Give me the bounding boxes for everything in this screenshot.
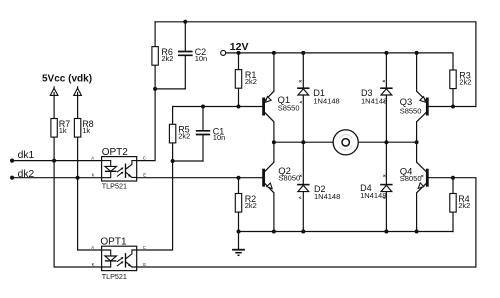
- svg-text:2k2: 2k2: [178, 132, 190, 141]
- svg-text:S8050: S8050: [400, 174, 422, 183]
- svg-text:A: A: [91, 156, 94, 161]
- node R3 bottom / Q3 base: [451, 105, 455, 109]
- diode D1: [297, 80, 340, 106]
- node D1 top on 12V rail: [301, 51, 305, 55]
- svg-text:A: A: [91, 245, 94, 250]
- terminal 12V: [221, 41, 249, 55]
- node D1/D2 motor row: [301, 140, 305, 144]
- wire R4 column leads: [452, 178, 454, 232]
- capacitor C1: [196, 126, 226, 142]
- terminal dk2: [10, 169, 34, 180]
- resistor R8: [74, 119, 93, 138]
- wire R7 column down to OPT1 cathode: [54, 94, 102, 268]
- diode D2: [297, 175, 340, 201]
- svg-text:2k2: 2k2: [161, 54, 173, 63]
- wire top rail (R6/C2 top to right-side drop to Q3 base): [155, 22, 476, 107]
- svg-text:K: K: [92, 262, 95, 267]
- motor M: [333, 130, 358, 155]
- svg-text:10n: 10n: [213, 133, 226, 142]
- svg-text:C: C: [143, 245, 146, 250]
- node R5 bottom: [171, 159, 175, 163]
- node D3/D4 motor row: [384, 140, 388, 144]
- power symbol 5Vcc arrow (R7): [50, 86, 58, 95]
- svg-text:1N4148: 1N4148: [360, 191, 386, 200]
- node R8 / dk2: [76, 176, 80, 180]
- node Q1 top on 12V rail: [272, 51, 276, 55]
- wire OPT2 emitter row to Q2 base (through R2 top): [137, 177, 263, 179]
- wire Q1 base row (R5/C1 top to Q1 base): [173, 106, 263, 108]
- node R2 bottom / ground: [237, 230, 241, 234]
- capacitor C2: [178, 47, 207, 63]
- svg-text:OPT2: OPT2: [102, 147, 129, 158]
- node D3 top on 12V rail: [384, 51, 388, 55]
- transistor Q1: [262, 95, 299, 116]
- svg-text:2k2: 2k2: [459, 77, 471, 86]
- svg-text:5Vcc (vdk): 5Vcc (vdk): [42, 73, 92, 84]
- transistor Q3: [400, 97, 429, 116]
- wire OPT2 collector stub up to R6/C2 bottom node: [137, 89, 155, 161]
- wire R6/C2 bottom joining wire: [155, 88, 185, 90]
- node Q3 top on 12V rail: [415, 51, 419, 55]
- diode D4: [360, 175, 393, 200]
- wire motor row right segment: [358, 141, 416, 143]
- wire R2 column and ground stem: [238, 178, 240, 249]
- svg-text:1k: 1k: [82, 126, 90, 135]
- optocoupler OPT1: [91, 237, 146, 281]
- svg-text:1k: 1k: [59, 126, 67, 135]
- svg-text:E: E: [143, 173, 146, 178]
- svg-text:S8050: S8050: [279, 174, 301, 183]
- wire C2 column leads: [184, 22, 186, 89]
- node R1 top on 12V rail: [237, 51, 241, 55]
- resistor R1: [235, 70, 257, 89]
- power symbol 5Vcc arrow (R8): [74, 86, 82, 95]
- resistor R3: [450, 70, 472, 89]
- node R4 top / Q4 base: [451, 176, 455, 180]
- node R7 / dk1: [52, 159, 56, 163]
- resistor R5: [169, 124, 190, 143]
- wire Q4 base row to right side down to OPT1 emitter row: [137, 178, 476, 267]
- transistor Q4: [400, 166, 429, 188]
- svg-text:K: K: [92, 173, 95, 178]
- wire Q1 collector-emitter column: [265, 53, 274, 142]
- wire R6 column leads: [154, 22, 156, 89]
- node Q2 bottom rail: [272, 230, 276, 234]
- wire Q2 collector-emitter column: [265, 142, 274, 231]
- resistor R2: [235, 194, 256, 213]
- svg-text:TLP521: TLP521: [102, 182, 127, 191]
- wire dk2 line to OPT2 cathode: [12, 177, 102, 179]
- node Q1 emitter motor row: [272, 140, 276, 144]
- node C1 top: [201, 105, 205, 109]
- wire ground rail: [239, 231, 454, 233]
- wire C1 column leads: [202, 107, 204, 162]
- optocoupler OPT2: [91, 147, 146, 190]
- svg-text:1N4148: 1N4148: [313, 97, 339, 106]
- wire dk1 line to OPT2 anode: [12, 160, 102, 162]
- wire Q4 collector-emitter column: [417, 142, 426, 231]
- svg-text:S8550: S8550: [278, 103, 300, 112]
- resistor R6: [152, 47, 174, 66]
- svg-text:TLP521: TLP521: [102, 272, 127, 281]
- resistor R4: [450, 194, 470, 213]
- terminal dk1: [10, 150, 34, 163]
- node R1 bottom / Q1 base: [237, 105, 241, 109]
- svg-text:dk2: dk2: [18, 169, 35, 180]
- wire D4 column: [385, 142, 387, 231]
- svg-text:2k2: 2k2: [245, 201, 257, 210]
- svg-text:2k2: 2k2: [458, 201, 470, 210]
- svg-text:OPT1: OPT1: [100, 237, 127, 248]
- wire D3 column: [385, 53, 387, 142]
- ground: [232, 250, 245, 256]
- node R2 top / Q2 base: [237, 176, 241, 180]
- wire D2 column: [302, 142, 304, 231]
- resistor R7: [51, 119, 70, 138]
- wire R5/C1 bottom joining wire: [173, 160, 203, 162]
- wire motor row left segment: [274, 141, 333, 143]
- node Q3 motor row: [415, 140, 419, 144]
- wire R8 column down to OPT1 anode: [78, 94, 102, 251]
- wire R1 column leads: [238, 53, 240, 107]
- wire Q3 base row to R3 bottom: [429, 106, 476, 108]
- node C2 top: [183, 20, 187, 24]
- node D2 bottom rail: [301, 230, 305, 234]
- svg-text:1N4148: 1N4148: [361, 97, 387, 106]
- svg-text:C: C: [143, 156, 146, 161]
- wire Q3 collector-emitter column: [417, 53, 426, 142]
- svg-text:S8550: S8550: [400, 107, 422, 116]
- diode D3: [361, 80, 393, 106]
- node Q4 bottom rail: [415, 230, 419, 234]
- svg-text:1N4148: 1N4148: [314, 192, 340, 201]
- node D4 bottom rail: [384, 230, 388, 234]
- svg-text:2k2: 2k2: [245, 77, 257, 86]
- wire R3 column leads: [452, 89, 454, 107]
- wire R5 column leads and OPT1 collector stub: [137, 107, 173, 251]
- svg-text:10n: 10n: [195, 54, 208, 63]
- wire 12V rail: [226, 53, 453, 70]
- wire D1 column: [302, 53, 304, 142]
- svg-text:E: E: [143, 262, 146, 267]
- node R6/C2 bottom: [153, 87, 157, 91]
- transistor Q2: [262, 166, 300, 189]
- svg-text:dk1: dk1: [18, 150, 35, 161]
